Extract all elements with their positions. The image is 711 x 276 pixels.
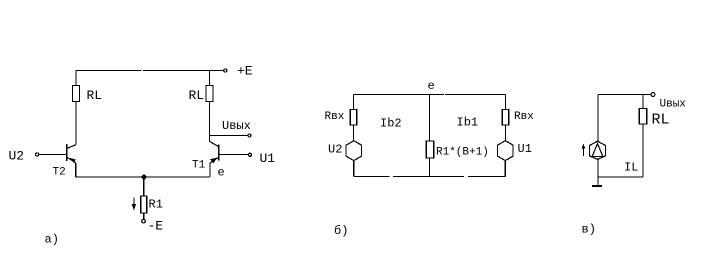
resistor RL (right) [206, 86, 213, 102]
wire: top rail [598, 94, 651, 96]
wire: current source bottom lead [597, 159, 599, 185]
wire: U2 source bottom lead [353, 161, 355, 177]
T2 emitter arrow (pnp, points to base) [70, 158, 77, 163]
wire: bottom rail segment 3 [468, 175, 506, 177]
svg-text:e: e [218, 166, 225, 180]
wire: T2 base lead [39, 154, 67, 156]
transistor Q T2 base bar [66, 144, 68, 161]
svg-text:T1: T1 [192, 160, 206, 172]
resistor RL (left) [73, 86, 80, 102]
wire: U1 source bottom lead [504, 161, 506, 177]
svg-text:Ib2: Ib2 [380, 117, 402, 131]
svg-text:RL: RL [652, 112, 670, 129]
svg-text:T2: T2 [53, 167, 66, 179]
current source IL hexagon [590, 141, 606, 159]
wire: T1 emitter diagonal [210, 157, 218, 163]
current direction arrow beside R1 [132, 198, 137, 211]
source U2 hexagon [346, 141, 362, 161]
wire: current source top lead [597, 95, 599, 142]
svg-text:U1: U1 [518, 142, 532, 156]
node +E terminal circle [224, 69, 227, 72]
wire: left RL bottom lead to T2 collector [75, 102, 77, 145]
wire: top rail segment 2 [445, 94, 506, 96]
wire: R1 top lead [143, 177, 145, 196]
wire: emitter bottom rail [76, 176, 210, 178]
svg-text:Uвых: Uвых [660, 99, 687, 111]
wire: bottom rail segment 1 [354, 175, 390, 177]
svg-text:U2: U2 [9, 149, 25, 164]
current source inner triangle [592, 144, 603, 157]
ground [592, 185, 602, 187]
source U1 hexagon [498, 141, 514, 161]
wire: T2 collector diagonal [67, 145, 76, 149]
wire: Rvx left top lead [353, 95, 355, 110]
wire: R1 bottom lead [143, 213, 145, 219]
wire: output tap [210, 135, 249, 137]
wire: lead Rvx to U1 source [505, 125, 507, 141]
wire: right RL top lead [209, 71, 211, 86]
resistor R1 [141, 196, 147, 213]
svg-text:Rвх: Rвх [325, 111, 345, 123]
svg-text:U1: U1 [260, 151, 276, 166]
resistor Rvx (left) [350, 110, 356, 126]
wire: RL bottom lead [642, 124, 644, 177]
transistor Q T1 base bar [218, 144, 220, 160]
resistor RL [639, 109, 646, 125]
svg-text:а): а) [45, 233, 59, 247]
svg-text:RL: RL [189, 88, 205, 103]
svg-text:RL: RL [87, 88, 103, 103]
wire: bottom rail [598, 176, 643, 178]
svg-text:в): в) [582, 223, 596, 237]
T1 emitter arrow (pnp, points to base) [210, 158, 217, 164]
svg-text:-E: -E [148, 219, 164, 234]
wire: T1 emitter vertical [209, 163, 211, 177]
wire: lead Rvx to U2 source [353, 125, 355, 141]
svg-text:Rвх: Rвх [514, 111, 534, 123]
wire: top rail left segment [76, 70, 142, 72]
wire: T1 base lead [219, 154, 249, 156]
svg-text:+E: +E [237, 64, 253, 79]
node U2 input terminal [35, 153, 38, 156]
wire: middle branch top lead [429, 95, 431, 142]
svg-text:IL: IL [624, 161, 638, 175]
wire: middle branch bottom lead [429, 158, 431, 176]
wire: top rail segment 1 [354, 94, 445, 96]
resistor Rvx (right) [502, 110, 509, 126]
resistor R1*(B+1) [426, 141, 434, 158]
node Uvyh terminal circle [651, 93, 655, 97]
wire: T2 emitter vertical [75, 163, 77, 177]
svg-text:e: e [428, 79, 435, 93]
wire: Rvx right top lead [505, 95, 507, 110]
wire: left RL top lead [75, 71, 77, 86]
current direction arrow (up) [582, 144, 586, 156]
svg-text:Uвых: Uвых [222, 119, 251, 133]
wire: top rail right segment [143, 70, 224, 72]
svg-text:б): б) [334, 224, 348, 238]
wire: right collector vertical [209, 102, 211, 142]
node output terminal circle [248, 134, 251, 137]
wire: T2 emitter diagonal [67, 157, 76, 163]
svg-text:R1*(B+1): R1*(B+1) [436, 147, 489, 159]
node -E terminal circle [142, 219, 146, 223]
node junction dot on bottom rail [142, 175, 146, 179]
wire: T1 collector diagonal [210, 141, 219, 146]
node U1 input terminal [248, 153, 251, 156]
wire: bottom rail segment 2 [393, 175, 464, 177]
svg-text:U2: U2 [328, 143, 342, 157]
wire: RL top lead [642, 95, 644, 109]
svg-text:Ib1: Ib1 [457, 116, 479, 130]
svg-text:R1: R1 [149, 198, 163, 212]
